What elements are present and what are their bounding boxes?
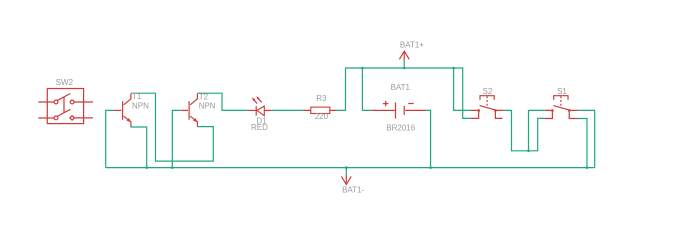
svg-text:T2: T2	[199, 93, 209, 102]
svg-text:BAT1+: BAT1+	[400, 41, 424, 50]
svg-text:SW2: SW2	[56, 78, 74, 87]
svg-text:BAT1: BAT1	[391, 83, 411, 92]
svg-text:220: 220	[315, 112, 329, 121]
svg-text:S1: S1	[557, 87, 567, 96]
svg-text:S2: S2	[483, 87, 493, 96]
svg-text:RED: RED	[251, 123, 268, 132]
svg-text:T1: T1	[132, 92, 142, 101]
svg-text:BR2016: BR2016	[386, 123, 415, 132]
svg-text:NPN: NPN	[199, 101, 216, 110]
svg-text:NPN: NPN	[132, 101, 149, 110]
svg-text:BAT1-: BAT1-	[342, 186, 364, 195]
svg-text:R3: R3	[316, 94, 327, 103]
